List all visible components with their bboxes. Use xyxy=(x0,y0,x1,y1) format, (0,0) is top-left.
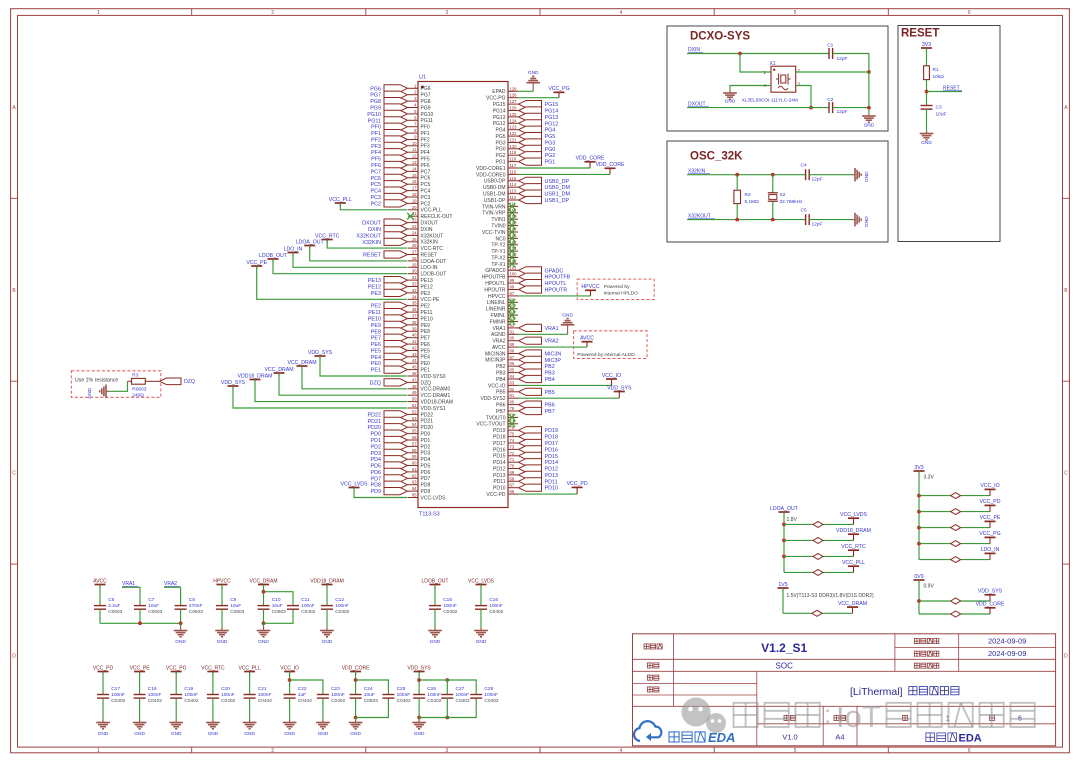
svg-text:60: 60 xyxy=(412,461,417,466)
svg-text:11: 11 xyxy=(412,147,417,152)
svg-text:REFCLK-OUT: REFCLK-OUT xyxy=(421,214,453,220)
svg-text:PD5: PD5 xyxy=(371,464,382,470)
svg-text:VCC-LVDS: VCC-LVDS xyxy=(421,495,447,501)
port PE4 (pin 43) xyxy=(371,352,430,361)
svg-text:PD1: PD1 xyxy=(421,438,431,444)
wire LDO_IN xyxy=(284,246,408,267)
svg-text:GND: GND xyxy=(318,731,329,737)
svg-text:VDD_CORE: VDD_CORE xyxy=(596,162,625,168)
svg-text:VCC_DRAM: VCC_DRAM xyxy=(287,360,316,366)
no-connect pin 102 xyxy=(491,259,518,268)
svg-text:122: 122 xyxy=(510,131,518,136)
svg-text:VDD18-DRAM: VDD18-DRAM xyxy=(421,400,454,406)
svg-text:TVIN-VRP: TVIN-VRP xyxy=(482,211,506,217)
svg-text:C0402: C0402 xyxy=(258,698,272,704)
svg-text:2.2uF: 2.2uF xyxy=(108,603,120,609)
svg-text:PD11: PD11 xyxy=(493,479,505,485)
pin 117 VDD-CORE1 xyxy=(476,163,518,172)
svg-text:C0402: C0402 xyxy=(484,698,498,704)
svg-text:PB5: PB5 xyxy=(545,390,555,396)
ground xyxy=(215,628,229,646)
svg-text:X32KOUT: X32KOUT xyxy=(356,233,381,239)
svg-text:GPADC: GPADC xyxy=(545,268,564,274)
wire VCC_DRAM xyxy=(264,367,407,395)
svg-text:C0603: C0603 xyxy=(230,609,244,615)
svg-text:2024-09-09: 2024-09-09 xyxy=(988,649,1026,658)
wire 1V5 vertical xyxy=(782,588,784,613)
port PD0 (pin 55) xyxy=(371,429,431,438)
capacitor C22 1uF xyxy=(284,672,313,720)
svg-text:C3: C3 xyxy=(936,105,942,111)
svg-text:VCC_DRAM: VCC_DRAM xyxy=(264,367,293,373)
svg-text:Powered by: Powered by xyxy=(604,284,630,290)
wire DXOUT xyxy=(687,107,829,109)
port DXIN (pin 23) xyxy=(368,224,433,233)
svg-text:PD22: PD22 xyxy=(368,412,382,418)
watermark text xyxy=(734,699,1035,734)
svg-text:C0402: C0402 xyxy=(301,609,315,615)
power flag VCC_IO (pin 83) xyxy=(602,373,621,386)
wire VDD18_DRAM xyxy=(238,373,408,401)
no-connect pin 104 xyxy=(491,246,518,255)
svg-text:C22: C22 xyxy=(298,686,307,692)
ground (X32KOUT) xyxy=(852,213,870,227)
svg-text:12pF: 12pF xyxy=(812,221,823,227)
svg-text:VCC_IO: VCC_IO xyxy=(980,483,999,489)
pin 89 AVCC xyxy=(492,342,518,351)
svg-text:126: 126 xyxy=(510,106,518,111)
port X32KIN (pin 25) xyxy=(362,237,438,246)
svg-text:101: 101 xyxy=(510,265,518,270)
svg-text:12pF: 12pF xyxy=(837,56,848,62)
svg-text:76: 76 xyxy=(510,425,515,430)
svg-text:C10: C10 xyxy=(272,597,281,603)
ground (R3) xyxy=(87,385,109,399)
power flag VCC_PG xyxy=(548,86,569,98)
svg-text:R0603: R0603 xyxy=(132,387,146,393)
port X32KOUT (pin 24) xyxy=(356,230,443,239)
power flag LDOB_OUT xyxy=(422,578,449,587)
power flag VCC_DRAM xyxy=(783,601,867,616)
svg-text:36: 36 xyxy=(412,307,417,312)
svg-text:C0402: C0402 xyxy=(148,698,162,704)
wire HPVCC xyxy=(518,295,591,297)
svg-text:89: 89 xyxy=(510,342,515,347)
svg-text:PG13: PG13 xyxy=(493,115,506,121)
wire X1.3 to DXOUT xyxy=(796,86,813,110)
svg-text:129: 129 xyxy=(510,86,518,91)
power flag VDD_CORE (pin 117) xyxy=(576,156,605,168)
pin 51 VDD-SYS1 xyxy=(408,403,446,412)
svg-text:DZQ: DZQ xyxy=(421,380,432,386)
svg-text:PE8: PE8 xyxy=(371,329,381,335)
svg-text:GND: GND xyxy=(175,639,186,645)
svg-text:PG4: PG4 xyxy=(495,128,505,134)
ground xyxy=(206,720,220,738)
svg-text:X32KIN: X32KIN xyxy=(421,240,439,246)
svg-text:C28: C28 xyxy=(484,686,493,692)
svg-text:PD14: PD14 xyxy=(545,460,559,466)
svg-text:VDD_SYS: VDD_SYS xyxy=(308,350,333,356)
svg-text:TP-Y1: TP-Y1 xyxy=(491,249,505,255)
svg-text:PG2: PG2 xyxy=(495,153,505,159)
svg-text:PE12: PE12 xyxy=(368,285,381,291)
svg-text:VDD-SYS2: VDD-SYS2 xyxy=(480,396,505,402)
svg-text:PD6: PD6 xyxy=(371,470,382,476)
svg-text:PF0: PF0 xyxy=(421,125,430,131)
svg-text:83: 83 xyxy=(510,380,515,385)
svg-text:PD19: PD19 xyxy=(493,428,506,434)
no-connect pin 111 xyxy=(482,201,518,210)
svg-text:C0603: C0603 xyxy=(189,609,203,615)
port HPOUTR (pin 98) xyxy=(484,285,567,294)
port PC6 (pin 15) xyxy=(371,173,431,182)
svg-text:Powered by internal ALDO: Powered by internal ALDO xyxy=(577,352,635,358)
svg-text:PF1: PF1 xyxy=(371,131,381,137)
port PG5 (pin 122) xyxy=(495,131,555,140)
svg-text:32.768kHz: 32.768kHz xyxy=(780,199,804,205)
svg-text:33: 33 xyxy=(412,288,417,293)
svg-text:99: 99 xyxy=(510,278,515,283)
svg-text:C24: C24 xyxy=(364,686,373,692)
svg-text:1V5: 1V5 xyxy=(778,582,787,588)
power flag VCC_PE xyxy=(130,665,151,674)
svg-text:PE0: PE0 xyxy=(421,361,431,367)
svg-text:LDO_IN: LDO_IN xyxy=(284,246,303,252)
svg-text:114: 114 xyxy=(510,182,517,187)
svg-text:40: 40 xyxy=(412,333,417,338)
svg-text:TVIN-VRN: TVIN-VRN xyxy=(482,204,506,210)
svg-text:PG10: PG10 xyxy=(367,112,381,118)
port PD16 (pin 73) xyxy=(493,444,558,453)
ground xyxy=(257,628,271,646)
svg-text:C0402: C0402 xyxy=(335,609,349,615)
power flag VCC_LVDS xyxy=(782,512,867,527)
svg-text:PD14: PD14 xyxy=(493,460,506,466)
svg-text:HPVCC: HPVCC xyxy=(488,294,506,300)
svg-text:PG6: PG6 xyxy=(421,86,431,92)
svg-text:32: 32 xyxy=(412,282,417,287)
capacitor C27 100nF xyxy=(441,680,470,718)
port RESET (pin 27) xyxy=(363,250,437,259)
svg-text:PE3: PE3 xyxy=(421,291,431,297)
svg-text:GND: GND xyxy=(414,731,425,737)
port PG9 (pin 4) xyxy=(370,103,431,112)
svg-text:MIC3P: MIC3P xyxy=(545,358,562,364)
svg-text:GND: GND xyxy=(208,731,219,737)
svg-text:USB0-DM: USB0-DM xyxy=(483,185,506,191)
wire LDOA_OUT vertical xyxy=(783,512,785,572)
svg-text:PG6: PG6 xyxy=(370,86,381,92)
wire X1.2 xyxy=(796,71,869,73)
svg-text:[LiThermal]: [LiThermal] xyxy=(850,686,903,698)
svg-text:GND: GND xyxy=(171,731,182,737)
pin 65 VCC-LVDS xyxy=(408,493,446,502)
svg-text:USB1_DP: USB1_DP xyxy=(545,198,570,204)
svg-text:PE5: PE5 xyxy=(371,349,381,355)
port PG8 (pin 3) xyxy=(370,96,431,105)
svg-text:PG7: PG7 xyxy=(421,93,431,99)
port PF2 (pin 9) xyxy=(371,135,430,144)
svg-text:C: C xyxy=(1064,471,1068,477)
wire VCC_LVDS xyxy=(340,481,407,497)
ground xyxy=(283,720,297,738)
svg-text:PG3: PG3 xyxy=(545,141,556,147)
svg-text:GND: GND xyxy=(476,639,487,645)
svg-text:R2: R2 xyxy=(745,192,751,198)
svg-text:VCC_PLL: VCC_PLL xyxy=(238,665,260,671)
capacitor C8 470nF xyxy=(175,597,204,623)
ground xyxy=(133,720,147,738)
svg-text:6: 6 xyxy=(968,10,971,16)
svg-text:VRA2: VRA2 xyxy=(545,339,559,345)
svg-text:PB7: PB7 xyxy=(496,409,506,415)
svg-text:115: 115 xyxy=(510,176,517,181)
dashed note box: AVCC powered by internal ALDO xyxy=(574,331,647,359)
pin 66 VCC-PD xyxy=(486,489,518,498)
power flag VDD_SYS xyxy=(407,665,431,674)
svg-text:PE1: PE1 xyxy=(421,368,431,374)
module box DCXO-SYS xyxy=(667,26,888,131)
svg-text:VDD_CORE: VDD_CORE xyxy=(976,602,1005,608)
svg-text:82: 82 xyxy=(510,387,515,392)
svg-text:PD8: PD8 xyxy=(421,483,431,489)
svg-text:VCC-PLL: VCC-PLL xyxy=(421,208,442,214)
pin 81 VDD-SYS2 xyxy=(480,393,518,402)
svg-text:75: 75 xyxy=(510,432,515,437)
svg-text:PB7: PB7 xyxy=(545,409,555,415)
svg-text:R3: R3 xyxy=(132,372,138,378)
svg-text:VCC_IO: VCC_IO xyxy=(602,373,621,379)
svg-text:VCC_PG: VCC_PG xyxy=(548,86,569,92)
svg-text:C16: C16 xyxy=(489,597,498,603)
svg-text:240Ω: 240Ω xyxy=(132,393,144,399)
ground (X1 pin4) xyxy=(723,90,737,105)
wire VDD_SYS xyxy=(221,380,408,408)
svg-text:GND: GND xyxy=(528,70,539,76)
svg-text:4: 4 xyxy=(620,748,623,754)
svg-text:61: 61 xyxy=(412,467,417,472)
svg-text:PE0: PE0 xyxy=(371,361,381,367)
ground (RESET) xyxy=(920,131,934,147)
svg-text:23: 23 xyxy=(412,224,417,229)
svg-text:C0402: C0402 xyxy=(221,698,235,704)
module box OSC_32K xyxy=(667,141,888,242)
svg-text:20: 20 xyxy=(412,205,417,210)
svg-text:10: 10 xyxy=(412,141,417,146)
svg-text:PG10: PG10 xyxy=(421,112,434,118)
pin 20 VCC-PLL xyxy=(408,205,442,214)
svg-text:1uF: 1uF xyxy=(298,692,306,698)
svg-text:112: 112 xyxy=(510,195,517,200)
svg-text:TVIN0: TVIN0 xyxy=(491,224,505,230)
svg-text:PC5: PC5 xyxy=(421,182,431,188)
svg-text:PE2: PE2 xyxy=(421,304,431,310)
svg-text:HPVCC: HPVCC xyxy=(581,284,599,290)
port PE9 (pin 38) xyxy=(371,320,430,329)
svg-text:USB1-DM: USB1-DM xyxy=(483,192,506,198)
svg-text:119: 119 xyxy=(510,150,517,155)
svg-text:3V3: 3V3 xyxy=(914,465,923,471)
svg-text:85: 85 xyxy=(510,368,515,373)
wire VDD_CORE0 xyxy=(518,173,610,175)
svg-text:100: 100 xyxy=(510,272,518,277)
svg-text:RESET: RESET xyxy=(421,252,438,258)
svg-text:3: 3 xyxy=(445,748,448,754)
svg-text:PD21: PD21 xyxy=(368,419,382,425)
wire 3V3 vertical xyxy=(918,471,920,560)
svg-text:VDD-CORE1: VDD-CORE1 xyxy=(476,166,506,172)
svg-text:IoT: IoT xyxy=(836,699,881,734)
port PG4 (pin 123) xyxy=(495,125,555,134)
svg-text:VCC-PE: VCC-PE xyxy=(421,297,441,303)
svg-text:PG12: PG12 xyxy=(493,121,506,127)
power flag VDD18_DRAM xyxy=(310,578,344,587)
svg-text:PC3: PC3 xyxy=(371,195,382,201)
svg-text:VDD18_DRAM: VDD18_DRAM xyxy=(238,373,273,379)
svg-text:PE7: PE7 xyxy=(371,336,381,342)
svg-text:LDOB_OUT: LDOB_OUT xyxy=(259,253,288,259)
svg-text:VDD_SYS: VDD_SYS xyxy=(221,380,246,386)
port PF4 (pin 11) xyxy=(371,147,430,156)
port PB2 (pin 86) xyxy=(496,361,555,370)
svg-text:PG8: PG8 xyxy=(421,99,431,105)
ground xyxy=(474,628,488,646)
port PD19 (pin 76) xyxy=(493,425,558,434)
svg-text:81: 81 xyxy=(510,393,515,398)
svg-text:10uF: 10uF xyxy=(148,603,159,609)
svg-text:PE13: PE13 xyxy=(421,278,433,284)
svg-text:PG1: PG1 xyxy=(495,160,505,166)
svg-text:AVCC: AVCC xyxy=(492,345,506,351)
svg-text:35: 35 xyxy=(412,301,417,306)
capacitor C7 10uF xyxy=(134,597,163,623)
svg-text:PG12: PG12 xyxy=(545,121,559,127)
svg-text:VCC_PG: VCC_PG xyxy=(166,665,187,671)
port DXOUT (pin 22) xyxy=(362,218,438,227)
svg-text:PE7: PE7 xyxy=(421,336,431,342)
vendor name EDA (title cell) xyxy=(926,733,982,745)
no-connect pin 106 xyxy=(495,233,518,242)
svg-text:LINEINL: LINEINL xyxy=(487,300,506,306)
svg-text:100nF: 100nF xyxy=(148,692,162,698)
svg-text:VCC-TVIN: VCC-TVIN xyxy=(482,230,506,236)
svg-text:42: 42 xyxy=(412,346,417,351)
power flag 3V3 (RESET) xyxy=(921,42,932,51)
wire LDOB_OUT xyxy=(259,253,407,274)
wire VCC_PE xyxy=(246,260,407,300)
crystal X1 XL3EL58COI-111YLC-24M xyxy=(742,61,801,103)
power flag VDD_CORE xyxy=(919,602,1005,617)
port PC2 (pin 19) xyxy=(371,198,431,207)
ground xyxy=(96,720,110,738)
port PF5 (pin 12) xyxy=(371,154,430,163)
port PC5 (pin 16) xyxy=(371,179,431,188)
svg-text:PF1: PF1 xyxy=(421,131,430,137)
power flag AVCC xyxy=(93,578,107,587)
svg-text:116: 116 xyxy=(510,169,517,174)
svg-text:10uF: 10uF xyxy=(364,692,375,698)
svg-text:PG5: PG5 xyxy=(495,134,505,140)
capacitor C16 100nF xyxy=(475,585,504,628)
svg-text:121: 121 xyxy=(510,138,518,143)
svg-text:VDD-SYS0: VDD-SYS0 xyxy=(421,374,446,380)
capacitor C17 100nF xyxy=(97,672,126,720)
svg-text:HPVCC: HPVCC xyxy=(213,578,231,584)
svg-text:5: 5 xyxy=(794,748,797,754)
svg-text:EDA: EDA xyxy=(959,733,982,745)
no-connect pin 94 xyxy=(491,310,519,319)
svg-text:PC5: PC5 xyxy=(371,182,382,188)
wire DXIN to X1.1 xyxy=(740,54,771,73)
no-connect pin 96 xyxy=(487,297,518,306)
wire VCC_IO xyxy=(518,384,612,386)
svg-text:68: 68 xyxy=(510,476,515,481)
no-connect pin 107 xyxy=(482,227,518,236)
port USB1_DP (pin 112) xyxy=(484,195,570,204)
wire VCC_PD xyxy=(518,493,577,495)
svg-text:C0603: C0603 xyxy=(272,609,286,615)
svg-text:GND: GND xyxy=(562,312,573,318)
svg-text:PG4: PG4 xyxy=(545,128,556,134)
power flag VCC_PLL xyxy=(784,560,865,575)
pin 91 AGND xyxy=(491,329,518,338)
power flag VDD_CORE xyxy=(342,665,370,674)
svg-text:PB3: PB3 xyxy=(496,371,506,377)
dashed note box: HPVCC powered by internal HPLDO xyxy=(577,279,654,299)
port PG15 (pin 127) xyxy=(493,99,559,108)
svg-text:0V9: 0V9 xyxy=(914,574,923,580)
svg-text:LINEINR: LINEINR xyxy=(486,307,506,313)
pin 97 HPVCC xyxy=(488,291,518,300)
port PF3 (pin 10) xyxy=(371,141,430,150)
svg-text:PD2: PD2 xyxy=(421,444,431,450)
title block table xyxy=(633,634,1056,746)
svg-text:67: 67 xyxy=(510,483,515,488)
svg-text:PD16: PD16 xyxy=(493,447,506,453)
port PD3 (pin 58) xyxy=(371,448,431,457)
svg-text:PD16: PD16 xyxy=(545,447,559,453)
wire C1 to corner xyxy=(833,54,871,74)
capacitor C28 100nF xyxy=(470,686,499,704)
svg-text:VDD_CORE: VDD_CORE xyxy=(342,665,370,671)
svg-text:DXOUT: DXOUT xyxy=(362,221,382,227)
wire R1 to C3 xyxy=(925,80,929,106)
port PG2 (pin 119) xyxy=(495,150,555,159)
capacitor C19 100nF xyxy=(170,672,199,720)
net label VRA1 / wire xyxy=(122,581,140,605)
svg-text:VCC_LVDS: VCC_LVDS xyxy=(340,481,368,487)
pin 30 LDOB-OUT xyxy=(408,269,446,278)
svg-text:VCC_PD: VCC_PD xyxy=(567,481,588,487)
port DZQ (pin 47) xyxy=(370,377,432,386)
svg-text:117: 117 xyxy=(510,163,517,168)
port MIC3N (pin 88) xyxy=(485,349,561,358)
svg-text:58: 58 xyxy=(412,448,417,453)
svg-text:TP-X1: TP-X1 xyxy=(491,262,505,268)
svg-text:PC7: PC7 xyxy=(421,169,431,175)
ground xyxy=(320,628,334,646)
svg-text:PB4: PB4 xyxy=(496,377,506,383)
net label RESET / wire xyxy=(927,86,963,92)
svg-text:MICIN3P: MICIN3P xyxy=(485,358,506,364)
svg-text:5: 5 xyxy=(794,10,797,16)
svg-text:PE4: PE4 xyxy=(421,355,431,361)
svg-text:PF4: PF4 xyxy=(421,150,430,156)
net label VRA2 / wire xyxy=(164,581,181,605)
svg-text:64: 64 xyxy=(412,486,417,491)
svg-text:PD6: PD6 xyxy=(421,470,431,476)
